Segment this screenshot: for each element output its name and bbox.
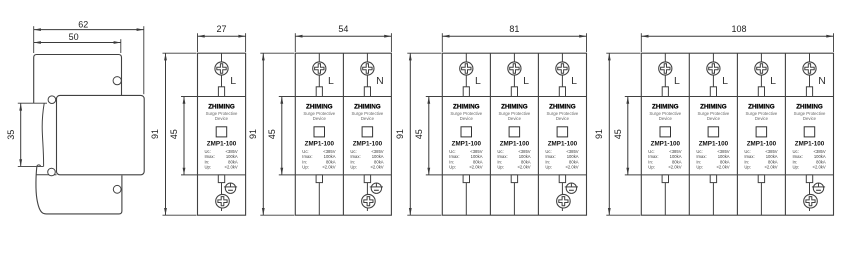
side view clip release hook (37, 165, 41, 166)
fig4 module 1 bottom wire (465, 183, 467, 216)
fig5 module divider 1 (688, 53, 690, 215)
svg-text:Device: Device (659, 116, 673, 121)
fig4 91-dim bottom extension (407, 214, 441, 216)
svg-text:ZHIMING: ZHIMING (796, 103, 823, 110)
svg-text:ZMP1-100: ZMP1-100 (305, 140, 335, 147)
svg-text:ZMP1-100: ZMP1-100 (795, 140, 825, 147)
fig2 module 1 ratings table (205, 149, 238, 170)
fig5 module 4 indicator window (804, 127, 815, 137)
fig3 module 2 bottom wire (366, 183, 368, 211)
fig1 right extension line (62) (143, 26, 145, 94)
svg-text:Up:: Up: (744, 165, 751, 170)
fig1 right extension line (50) (120, 39, 122, 53)
side view plug-in module (57, 95, 145, 174)
dimension 91 (fig 2 height) (150, 53, 167, 215)
svg-text:Uc:: Uc: (696, 149, 702, 154)
svg-text:<2.0kV: <2.0kV (813, 165, 826, 170)
fig4 module 3 (L) (561, 53, 563, 87)
fig4 module divider 2 (537, 53, 539, 215)
svg-text:Device: Device (707, 116, 721, 121)
fig5 left extension line (640, 33, 642, 52)
svg-text:Up:: Up: (696, 165, 703, 170)
fig3 module 1 (L) (318, 53, 320, 87)
svg-text:ZMP1-100: ZMP1-100 (207, 140, 237, 147)
figure 5: 4-pole SPD front view (594, 24, 834, 215)
svg-text:Surge Protective: Surge Protective (547, 111, 579, 116)
dimension 91 (fig 5 height) (594, 53, 611, 215)
fig2 91-dim bottom extension (163, 214, 197, 216)
side view module latch knob top (48, 96, 56, 104)
terminal screw fig5-2 (707, 62, 720, 75)
terminal screw fig5-4 (803, 62, 816, 75)
bottom terminal screw fig5 (804, 194, 818, 208)
svg-text:L: L (475, 75, 481, 87)
fig4 module 3 ratings table (545, 149, 578, 170)
terminal screw fig3-1 (313, 62, 326, 75)
bottom clamp screw fig5 (812, 183, 825, 193)
fig3 right extension line (390, 33, 392, 52)
fig1 left extension line (62/50) (33, 26, 35, 53)
svg-text:45: 45 (169, 129, 179, 139)
fig3 left extension line (294, 33, 296, 52)
fig4 module 2 indicator window (509, 127, 519, 137)
svg-text:<2.0kV: <2.0kV (668, 165, 681, 170)
fig5 module 3 indicator window (756, 127, 767, 137)
fig5 module 1 indicator window (660, 127, 671, 137)
fig2 module face top line (181, 96, 246, 98)
terminal screw fig3-2 (361, 62, 374, 75)
terminal screw fig5-1 (659, 62, 672, 75)
svg-text:<385V: <385V (813, 149, 825, 154)
fig2 module 1 bottom tab (218, 175, 224, 183)
svg-text:Surge Protective: Surge Protective (746, 111, 778, 116)
svg-text:Uc:: Uc: (648, 149, 654, 154)
fig5 module 3 bottom wire (760, 183, 762, 216)
svg-text:45: 45 (267, 129, 277, 139)
fig5 91-dim top extension (606, 52, 640, 54)
svg-text:ZHIMING: ZHIMING (453, 103, 480, 110)
svg-text:N: N (376, 75, 384, 87)
terminal screw fig4-2 (508, 62, 521, 75)
svg-text:ZMP1-100: ZMP1-100 (747, 140, 777, 147)
svg-text:<2.0kV: <2.0kV (322, 165, 335, 170)
fig4 module face bottom line (426, 174, 587, 176)
fig4 left extension line (441, 33, 443, 52)
svg-text:<385V: <385V (566, 149, 578, 154)
fig5 module 1 bottom wire (664, 183, 666, 216)
svg-text:108: 108 (731, 24, 746, 34)
svg-text:ZMP1-100: ZMP1-100 (452, 140, 482, 147)
fig4 91-dim top extension (407, 52, 441, 54)
svg-text:Device: Device (215, 116, 229, 121)
svg-text:ZMP1-100: ZMP1-100 (500, 140, 530, 147)
svg-text:L: L (770, 75, 776, 87)
fig5 module 1 ratings table (648, 149, 681, 170)
svg-text:50: 50 (69, 32, 79, 42)
fig5 module face top line (625, 96, 834, 98)
fig3 module divider 1 (342, 53, 344, 215)
svg-text:Uc:: Uc: (793, 149, 799, 154)
svg-text:ZHIMING: ZHIMING (700, 103, 727, 110)
svg-text:<385V: <385V (371, 149, 383, 154)
fig5 module 2 bottom wire (712, 183, 714, 216)
svg-text:Up:: Up: (350, 165, 357, 170)
fig5 module 2 bottom tab (710, 175, 716, 183)
fig4 module 2 terminal slot (511, 87, 517, 97)
fig3 module 2 (N) (366, 53, 368, 87)
terminal screw fig4-3 (556, 62, 569, 75)
fig2 91-dim top extension (163, 52, 197, 54)
fig2 right extension line (245, 33, 247, 52)
fig4 module 1 ratings table (449, 149, 482, 170)
dimension 91 (fig 4 height) (395, 53, 412, 215)
svg-text:ZHIMING: ZHIMING (354, 103, 381, 110)
fig3 enclosure outline (295, 53, 391, 215)
fig5 module divider 3 (784, 53, 786, 215)
fig3 module 2 ratings table (350, 149, 383, 170)
fig4 enclosure outline (442, 53, 586, 215)
svg-text:Surge Protective: Surge Protective (794, 111, 826, 116)
svg-text:27: 27 (216, 24, 226, 34)
fig4 module 3 bottom wire (561, 183, 563, 211)
bottom terminal screw fig2 (216, 194, 230, 208)
svg-text:Device: Device (508, 116, 522, 121)
fig3 module 1 indicator window (314, 127, 325, 137)
fig5 module 4 bottom wire (809, 183, 811, 211)
fig4 module 1 indicator window (461, 127, 472, 137)
svg-text:91: 91 (594, 129, 604, 139)
fig5 module 2 ratings table (696, 149, 729, 170)
fig4 module 1 terminal slot (463, 87, 469, 97)
dimension 54 (fig 3 width) (295, 24, 391, 38)
svg-text:L: L (523, 75, 529, 87)
dimension 35 (DIN clip height) (6, 103, 22, 166)
svg-text:<385V: <385V (765, 149, 777, 154)
fig5 91-dim bottom extension (606, 214, 640, 216)
fig3 module 1 bottom wire (318, 183, 320, 216)
fig5 module 4 bottom tab (806, 175, 812, 183)
fig5 module 1 terminal slot (662, 87, 668, 97)
svg-text:Up:: Up: (545, 165, 552, 170)
svg-text:Up:: Up: (648, 165, 655, 170)
fig3 module 1 terminal slot (316, 87, 322, 97)
fig4 module 2 bottom wire (513, 183, 515, 216)
svg-text:35: 35 (6, 130, 16, 140)
fig5 right extension line (833, 33, 835, 52)
svg-text:L: L (674, 75, 680, 87)
svg-text:62: 62 (78, 19, 88, 29)
fig3 module 2 terminal slot (364, 87, 370, 97)
svg-text:<2.0kV: <2.0kV (764, 165, 777, 170)
svg-text:<2.0kV: <2.0kV (469, 165, 482, 170)
bottom clamp screw fig4 (565, 183, 578, 193)
svg-text:Up:: Up: (449, 165, 456, 170)
svg-text:Up:: Up: (793, 165, 800, 170)
svg-text:<385V: <385V (225, 149, 237, 154)
svg-text:ZHIMING: ZHIMING (306, 103, 333, 110)
svg-text:L: L (722, 75, 728, 87)
terminal screw fig5-3 (755, 62, 768, 75)
fig5 module 2 terminal slot (710, 87, 716, 97)
fig3 module 1 ratings table (302, 149, 335, 170)
fig5 module divider 2 (736, 53, 738, 215)
side view DIN clip front edge (42, 103, 44, 166)
svg-text:<385V: <385V (669, 149, 681, 154)
fig4 module 2 bottom tab (511, 175, 517, 183)
svg-text:L: L (230, 75, 236, 87)
svg-text:Uc:: Uc: (449, 149, 455, 154)
fig4 module 1 bottom tab (463, 175, 469, 183)
svg-text:Device: Device (313, 116, 327, 121)
side view bottom terminal block (36, 167, 122, 214)
svg-text:ZHIMING: ZHIMING (549, 103, 576, 110)
svg-text:Uc:: Uc: (497, 149, 503, 154)
fig5 module 1 (L) (664, 53, 666, 87)
svg-text:<385V: <385V (470, 149, 482, 154)
figure 2: 1-pole SPD front view (150, 24, 246, 215)
fig5 module 2 indicator window (708, 127, 719, 137)
svg-text:Up:: Up: (497, 165, 504, 170)
fig3 module 2 bottom tab (364, 175, 370, 183)
svg-text:N: N (818, 75, 826, 87)
svg-text:Surge Protective: Surge Protective (352, 111, 384, 116)
bottom clamp screw fig2 (224, 183, 237, 193)
svg-text:<2.0kV: <2.0kV (225, 165, 238, 170)
svg-text:Device: Device (803, 116, 817, 121)
svg-text:Surge Protective: Surge Protective (499, 111, 531, 116)
fig2 module 1 (L) (221, 53, 223, 87)
fig2 module 1 indicator window (216, 127, 227, 137)
svg-text:<385V: <385V (518, 149, 530, 154)
fig4 module 1 (L) (465, 53, 467, 87)
svg-text:Up:: Up: (302, 165, 309, 170)
fig5 module face bottom line (625, 174, 834, 176)
fig5 module 3 (L) (760, 53, 762, 87)
dimension 81 (fig 4 width) (442, 24, 586, 38)
dimension 45 (fig 5 module height) (613, 97, 629, 175)
fig4 module 2 (L) (513, 53, 515, 87)
fig2 module 1 terminal slot (218, 87, 224, 97)
fig3 module 2 indicator window (362, 127, 373, 137)
fig3 module face bottom line (279, 174, 392, 176)
fig5 module 2 (L) (712, 53, 714, 87)
svg-text:Surge Protective: Surge Protective (698, 111, 730, 116)
fig1 clip bottom edge / 35-dim bottom extension (18, 165, 44, 167)
svg-text:91: 91 (248, 129, 258, 139)
fig2 module 1 bottom wire (221, 183, 223, 211)
dimension 108 (fig 5 width) (641, 24, 833, 38)
figure 1: SPD side view (6, 19, 144, 214)
fig5 module 1 bottom tab (662, 175, 668, 183)
side view top block mounting hole (113, 77, 121, 85)
svg-text:ZHIMING: ZHIMING (652, 103, 679, 110)
terminal screw fig2-1 (215, 62, 228, 75)
fig3 91-dim top extension (260, 52, 294, 54)
fig4 module 2 ratings table (497, 149, 530, 170)
dimension 62 (overall depth) (34, 19, 144, 31)
svg-text:Device: Device (755, 116, 769, 121)
fig4 module divider 1 (489, 53, 491, 215)
bottom terminal screw fig3 (362, 194, 376, 208)
svg-text:91: 91 (395, 129, 405, 139)
fig2 enclosure outline (198, 53, 246, 215)
dimension 45 (fig 4 module height) (414, 97, 430, 175)
svg-text:Surge Protective: Surge Protective (206, 111, 238, 116)
terminal screw fig4-1 (460, 62, 473, 75)
svg-text:45: 45 (613, 129, 623, 139)
svg-text:Device: Device (361, 116, 375, 121)
fig5 module 3 bottom tab (758, 175, 764, 183)
fig5 module 4 ratings table (793, 149, 826, 170)
svg-text:<385V: <385V (717, 149, 729, 154)
fig4 module 3 indicator window (557, 127, 568, 137)
svg-text:Surge Protective: Surge Protective (450, 111, 482, 116)
bottom clamp screw fig3 (370, 183, 383, 193)
fig5 enclosure outline (641, 53, 833, 215)
svg-text:<2.0kV: <2.0kV (565, 165, 578, 170)
svg-text:54: 54 (338, 24, 348, 34)
dimension 45 (fig 3 module height) (267, 97, 283, 175)
dimension 45 (fig 2 module height) (169, 97, 185, 175)
figure 3: 2-pole SPD front view (248, 24, 392, 215)
svg-text:ZHIMING: ZHIMING (748, 103, 775, 110)
svg-text:<385V: <385V (323, 149, 335, 154)
svg-text:<2.0kV: <2.0kV (370, 165, 383, 170)
svg-text:ZMP1-100: ZMP1-100 (353, 140, 383, 147)
fig3 module face top line (279, 96, 392, 98)
figure 4: 3-pole SPD front view (395, 24, 587, 215)
svg-text:L: L (328, 75, 334, 87)
dimension 27 (fig 2 width) (198, 24, 246, 38)
svg-text:ZMP1-100: ZMP1-100 (651, 140, 681, 147)
fig3 module 1 bottom tab (316, 175, 322, 183)
fig5 module 3 ratings table (744, 149, 777, 170)
svg-text:<2.0kV: <2.0kV (517, 165, 530, 170)
fig3 91-dim bottom extension (260, 214, 294, 216)
svg-text:45: 45 (414, 129, 424, 139)
svg-text:Uc:: Uc: (205, 149, 211, 154)
svg-text:<2.0kV: <2.0kV (716, 165, 729, 170)
svg-text:Device: Device (460, 116, 474, 121)
side view bottom block top edge (36, 174, 56, 176)
fig4 module 3 bottom tab (559, 175, 565, 183)
svg-text:ZHIMING: ZHIMING (208, 103, 235, 110)
svg-text:Surge Protective: Surge Protective (649, 111, 681, 116)
side view module latch knob bottom (48, 168, 56, 176)
svg-text:91: 91 (150, 129, 160, 139)
fig4 right extension line (586, 33, 588, 52)
fig2 left extension line (197, 33, 199, 52)
fig5 module 4 (N) (809, 53, 811, 87)
svg-text:ZHIMING: ZHIMING (501, 103, 528, 110)
side view top terminal block (34, 55, 122, 104)
fig2 module face bottom line (181, 174, 246, 176)
svg-text:Uc:: Uc: (302, 149, 308, 154)
fig4 module 3 terminal slot (559, 87, 565, 97)
svg-text:Uc:: Uc: (545, 149, 551, 154)
svg-text:Uc:: Uc: (350, 149, 356, 154)
svg-text:ZMP1-100: ZMP1-100 (699, 140, 729, 147)
svg-text:Device: Device (556, 116, 570, 121)
dimension 50 (base depth) (34, 32, 121, 44)
fig5 module 4 terminal slot (806, 87, 812, 97)
svg-text:81: 81 (509, 24, 519, 34)
svg-text:Up:: Up: (205, 165, 212, 170)
fig4 module face top line (426, 96, 587, 98)
svg-text:L: L (571, 75, 577, 87)
fig1 clip top edge / 35-dim top extension (18, 102, 47, 104)
svg-text:ZMP1-100: ZMP1-100 (548, 140, 578, 147)
svg-text:Surge Protective: Surge Protective (303, 111, 335, 116)
side view bottom block mounting hole (113, 185, 121, 193)
svg-text:Uc:: Uc: (744, 149, 750, 154)
fig5 module 3 terminal slot (758, 87, 764, 97)
bottom terminal screw fig4 (557, 194, 571, 208)
dimension 91 (fig 3 height) (248, 53, 265, 215)
